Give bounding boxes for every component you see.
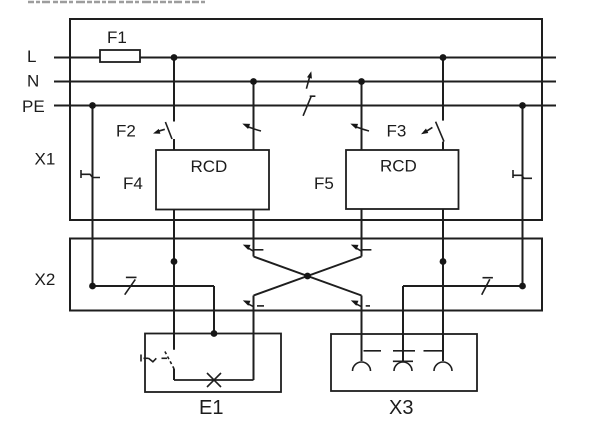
svg-text:E1: E1 bbox=[199, 397, 223, 419]
svg-text:F3: F3 bbox=[387, 122, 407, 141]
svg-text:L: L bbox=[27, 47, 36, 66]
svg-text:F4: F4 bbox=[123, 174, 143, 193]
svg-text:PE: PE bbox=[22, 97, 45, 116]
svg-text:F1: F1 bbox=[107, 28, 127, 47]
svg-text:RCD: RCD bbox=[380, 157, 417, 176]
svg-text:X3: X3 bbox=[389, 397, 413, 419]
svg-text:F5: F5 bbox=[314, 174, 334, 193]
svg-text:RCD: RCD bbox=[191, 157, 228, 176]
svg-text:N: N bbox=[27, 72, 39, 91]
svg-text:F2: F2 bbox=[116, 122, 136, 141]
svg-text:X1: X1 bbox=[35, 150, 56, 169]
svg-text:X2: X2 bbox=[35, 270, 56, 289]
